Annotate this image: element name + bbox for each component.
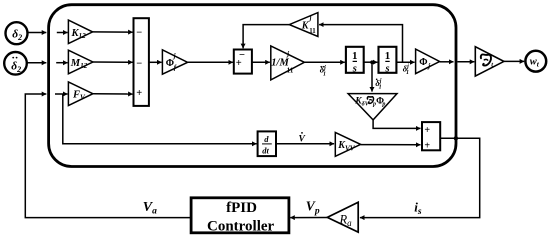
fPID controller box <box>191 198 289 235</box>
wire integrator1 to integrator2 <box>364 61 378 63</box>
wire FV to summing block <box>93 93 133 95</box>
wire delta2dd to boundary <box>27 62 46 64</box>
svg-text:j: j <box>286 51 289 58</box>
integrator 1/s (second) <box>379 47 397 75</box>
wire d/dt to KVV <box>276 143 334 145</box>
wire KdV to summing junction 2 <box>373 120 420 128</box>
gain K12 <box>68 20 92 43</box>
wire M12 to summing block <box>93 61 133 63</box>
gain KVV <box>335 132 360 156</box>
svg-text:+: + <box>424 140 430 151</box>
svg-text:+: + <box>236 58 242 69</box>
svg-text:wt: wt <box>530 57 540 69</box>
system boundary box <box>49 5 456 167</box>
svg-text:Va: Va <box>143 200 157 217</box>
wire It to wt <box>504 60 524 62</box>
gain K11^j (left-pointing) <box>289 13 318 37</box>
input node delta2 double-dot <box>4 52 27 75</box>
gain 1/M11^j <box>271 46 305 80</box>
svg-text:FV: FV <box>72 90 86 102</box>
svg-text:M12: M12 <box>70 58 88 70</box>
svg-text:s: s <box>352 63 357 74</box>
gain Ra (left-pointing) <box>327 202 358 232</box>
wire Phi_f to summing junction <box>188 61 233 63</box>
wire into FV <box>55 93 68 95</box>
wire delta2 to boundary <box>28 32 47 34</box>
svg-text:δj1: δj1 <box>403 64 409 77</box>
summing junction 2 (+ +) <box>422 122 440 151</box>
wire Va feedback into boundary <box>25 94 191 218</box>
gain It (Fraktur I) <box>475 47 504 76</box>
svg-text:−: − <box>136 59 142 70</box>
gain FV <box>68 82 93 106</box>
svg-text:+: + <box>424 125 430 136</box>
svg-text:11: 11 <box>287 68 294 75</box>
svg-text:−: − <box>136 28 142 39</box>
svg-text:V: V <box>299 135 306 145</box>
wire integrator2 to Phi_j <box>396 61 414 63</box>
wire branch to d/dt <box>63 94 257 143</box>
wire KVV to summing junction 2 <box>361 144 421 146</box>
svg-text:δ2: δ2 <box>11 61 21 75</box>
summing junction (- +) <box>234 50 252 74</box>
wire K12 to summing block <box>93 31 133 33</box>
wire Ra to fPID <box>290 217 327 219</box>
wire junction down to KdV <box>371 62 373 91</box>
svg-text:+: + <box>136 88 142 99</box>
derivative block d/dt <box>258 131 276 156</box>
gain KdV Ip Phip (down-pointing) <box>348 94 397 120</box>
integrator 1/s (first) <box>346 47 364 75</box>
svg-text:11: 11 <box>309 28 316 35</box>
wire into M12 <box>56 62 67 64</box>
svg-text:1: 1 <box>385 50 391 62</box>
svg-text:is: is <box>414 199 422 217</box>
label V-dot <box>299 132 306 145</box>
wire summing junction 2 to Ra (is) <box>360 138 480 217</box>
junction dot <box>370 60 374 64</box>
svg-text:t: t <box>491 62 493 69</box>
svg-text:p: p <box>381 102 385 108</box>
wire 1/M to integrator 1 <box>304 61 344 63</box>
label delta-dot-1^j <box>375 78 381 91</box>
svg-text:1: 1 <box>352 50 358 62</box>
input node delta2 <box>6 22 28 44</box>
svg-text:KVV: KVV <box>337 140 355 152</box>
wire summing block to Phi_f <box>149 61 162 63</box>
gain Phi_j <box>416 49 440 74</box>
gain M12 <box>68 50 93 74</box>
label delta-dd-1^j <box>320 65 326 78</box>
svg-text:s: s <box>384 63 389 74</box>
svg-text:δ2: δ2 <box>12 29 22 43</box>
svg-text:K12: K12 <box>71 28 87 40</box>
svg-text:j: j <box>173 53 176 60</box>
summing block (3 inputs) <box>134 18 149 106</box>
wire Phi_j to boundary <box>440 61 454 63</box>
svg-text:d: d <box>264 134 269 144</box>
svg-text:j: j <box>309 15 312 22</box>
svg-text:Controller: Controller <box>207 218 275 234</box>
gain Phi_f^j <box>162 50 187 74</box>
wire boundary to It <box>457 61 474 63</box>
wire summing junction to 1/M <box>252 61 270 63</box>
wire into K12 <box>57 32 68 34</box>
output node wt <box>525 51 546 72</box>
svg-text:fPID: fPID <box>226 200 257 216</box>
svg-text:dt: dt <box>262 146 269 156</box>
junction dot on boundary <box>454 136 458 140</box>
svg-text:Vp: Vp <box>306 199 320 217</box>
wire feedback up to K11 <box>319 25 402 63</box>
svg-text:Φ: Φ <box>419 57 427 68</box>
svg-text:Ra: Ra <box>339 212 353 228</box>
wire K11 to summing junction top <box>243 25 289 49</box>
